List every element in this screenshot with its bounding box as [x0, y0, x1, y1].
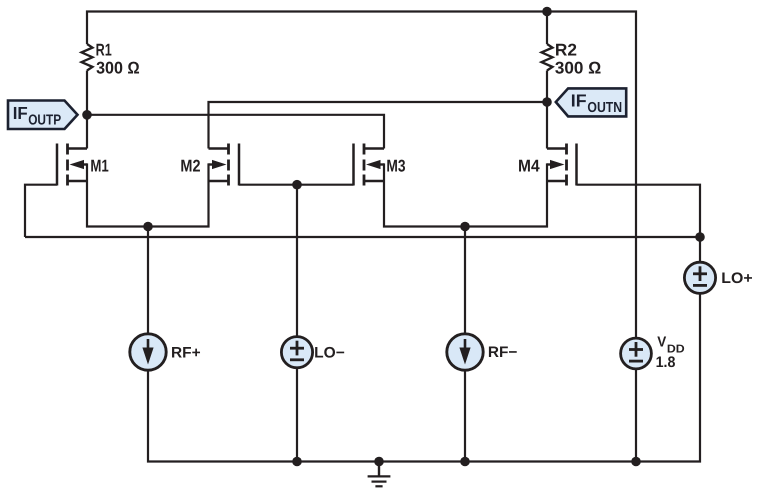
- node M2-M3 gate junction: [292, 180, 302, 190]
- wire RF- drop: [464, 227, 466, 334]
- wire ground bus: [148, 293, 700, 461]
- label R2 value: [555, 41, 601, 78]
- wire M1-M2 source tie: [87, 163, 209, 226]
- svg-text:IF: IF: [571, 91, 587, 111]
- label M2: [180, 156, 200, 175]
- wire R1 bottom lead: [86, 71, 88, 116]
- svg-text:M1: M1: [90, 156, 108, 175]
- voltage source LO-: [281, 337, 312, 368]
- node LO+ bus junction: [695, 232, 705, 242]
- wire M4 drain riser: [546, 102, 548, 149]
- node VDD ground junction: [631, 457, 641, 467]
- wire IF_OUTP rail: [87, 115, 384, 149]
- current source RF+: [130, 334, 166, 370]
- node RF+ junction: [143, 222, 153, 232]
- voltage source LO+: [684, 262, 715, 293]
- label RF+: [171, 344, 201, 361]
- svg-text:LO−: LO−: [314, 345, 345, 362]
- node LO- ground junction: [292, 457, 302, 467]
- label M4: [518, 156, 540, 175]
- wire LO- to ground bus: [296, 368, 298, 462]
- wire LO+ gate bus: [25, 236, 700, 238]
- wire R2 top lead: [546, 12, 548, 45]
- node top-rail/R2 junction: [542, 7, 552, 17]
- svg-text:V: V: [657, 334, 666, 350]
- label VDD: [656, 334, 685, 371]
- svg-text:RF+: RF+: [171, 344, 201, 361]
- wire M2-M3 gate tie: [239, 184, 354, 186]
- wire M1 gate to LO+ bus: [25, 185, 57, 237]
- svg-text:IF: IF: [13, 103, 28, 123]
- svg-text:OUTN: OUTN: [587, 100, 622, 116]
- wire M4 gate to LO+ bus: [577, 185, 701, 237]
- label M1: [90, 156, 108, 175]
- svg-text:OUTP: OUTP: [28, 113, 61, 129]
- label M3: [386, 156, 405, 175]
- svg-text:M3: M3: [386, 156, 405, 175]
- svg-text:RF−: RF−: [488, 344, 518, 361]
- wire M1 drain riser: [86, 115, 88, 149]
- wire RF- to ground bus: [464, 370, 466, 461]
- ground: [368, 462, 391, 487]
- resistor R1: [82, 44, 93, 71]
- node RF- junction: [460, 222, 470, 232]
- svg-text:300 Ω: 300 Ω: [96, 59, 140, 78]
- transistor M2: [209, 144, 240, 186]
- voltage source VDD 1.8: [621, 338, 652, 369]
- wire LO+ top lead: [699, 237, 701, 262]
- svg-text:R1: R1: [96, 41, 112, 60]
- svg-text:LO+: LO+: [721, 270, 752, 287]
- wire IF_OUTN rail: [209, 102, 548, 149]
- node IF_OUTP junction: [82, 110, 92, 120]
- node IF_OUTN junction: [542, 97, 552, 107]
- resistor R2: [542, 44, 553, 71]
- wire top rail VDD: [87, 12, 636, 339]
- label R1 value: [96, 41, 140, 78]
- label RF-: [488, 344, 518, 361]
- transistor M4: [547, 144, 577, 186]
- net flag IF_OUTN: [556, 88, 626, 116]
- net flag IF_OUTP: [8, 101, 78, 130]
- transistor M1: [57, 144, 87, 186]
- wire VDD to ground bus: [635, 369, 637, 462]
- transistor M3: [354, 144, 385, 186]
- wire M3-M4 source tie: [384, 163, 547, 226]
- label LO-: [314, 345, 345, 362]
- wire gate tie to LO-: [296, 185, 298, 337]
- svg-text:M4: M4: [518, 156, 540, 175]
- wire R2 bottom lead: [546, 71, 548, 103]
- current source RF-: [447, 334, 483, 370]
- node ground junction: [374, 457, 384, 467]
- svg-text:M2: M2: [180, 156, 200, 175]
- svg-text:1.8: 1.8: [656, 354, 676, 371]
- wire RF+ drop: [147, 227, 149, 334]
- svg-text:300 Ω: 300 Ω: [555, 59, 601, 78]
- node RF- ground junction: [460, 457, 470, 467]
- svg-text:R2: R2: [555, 41, 577, 60]
- label LO+: [721, 270, 752, 287]
